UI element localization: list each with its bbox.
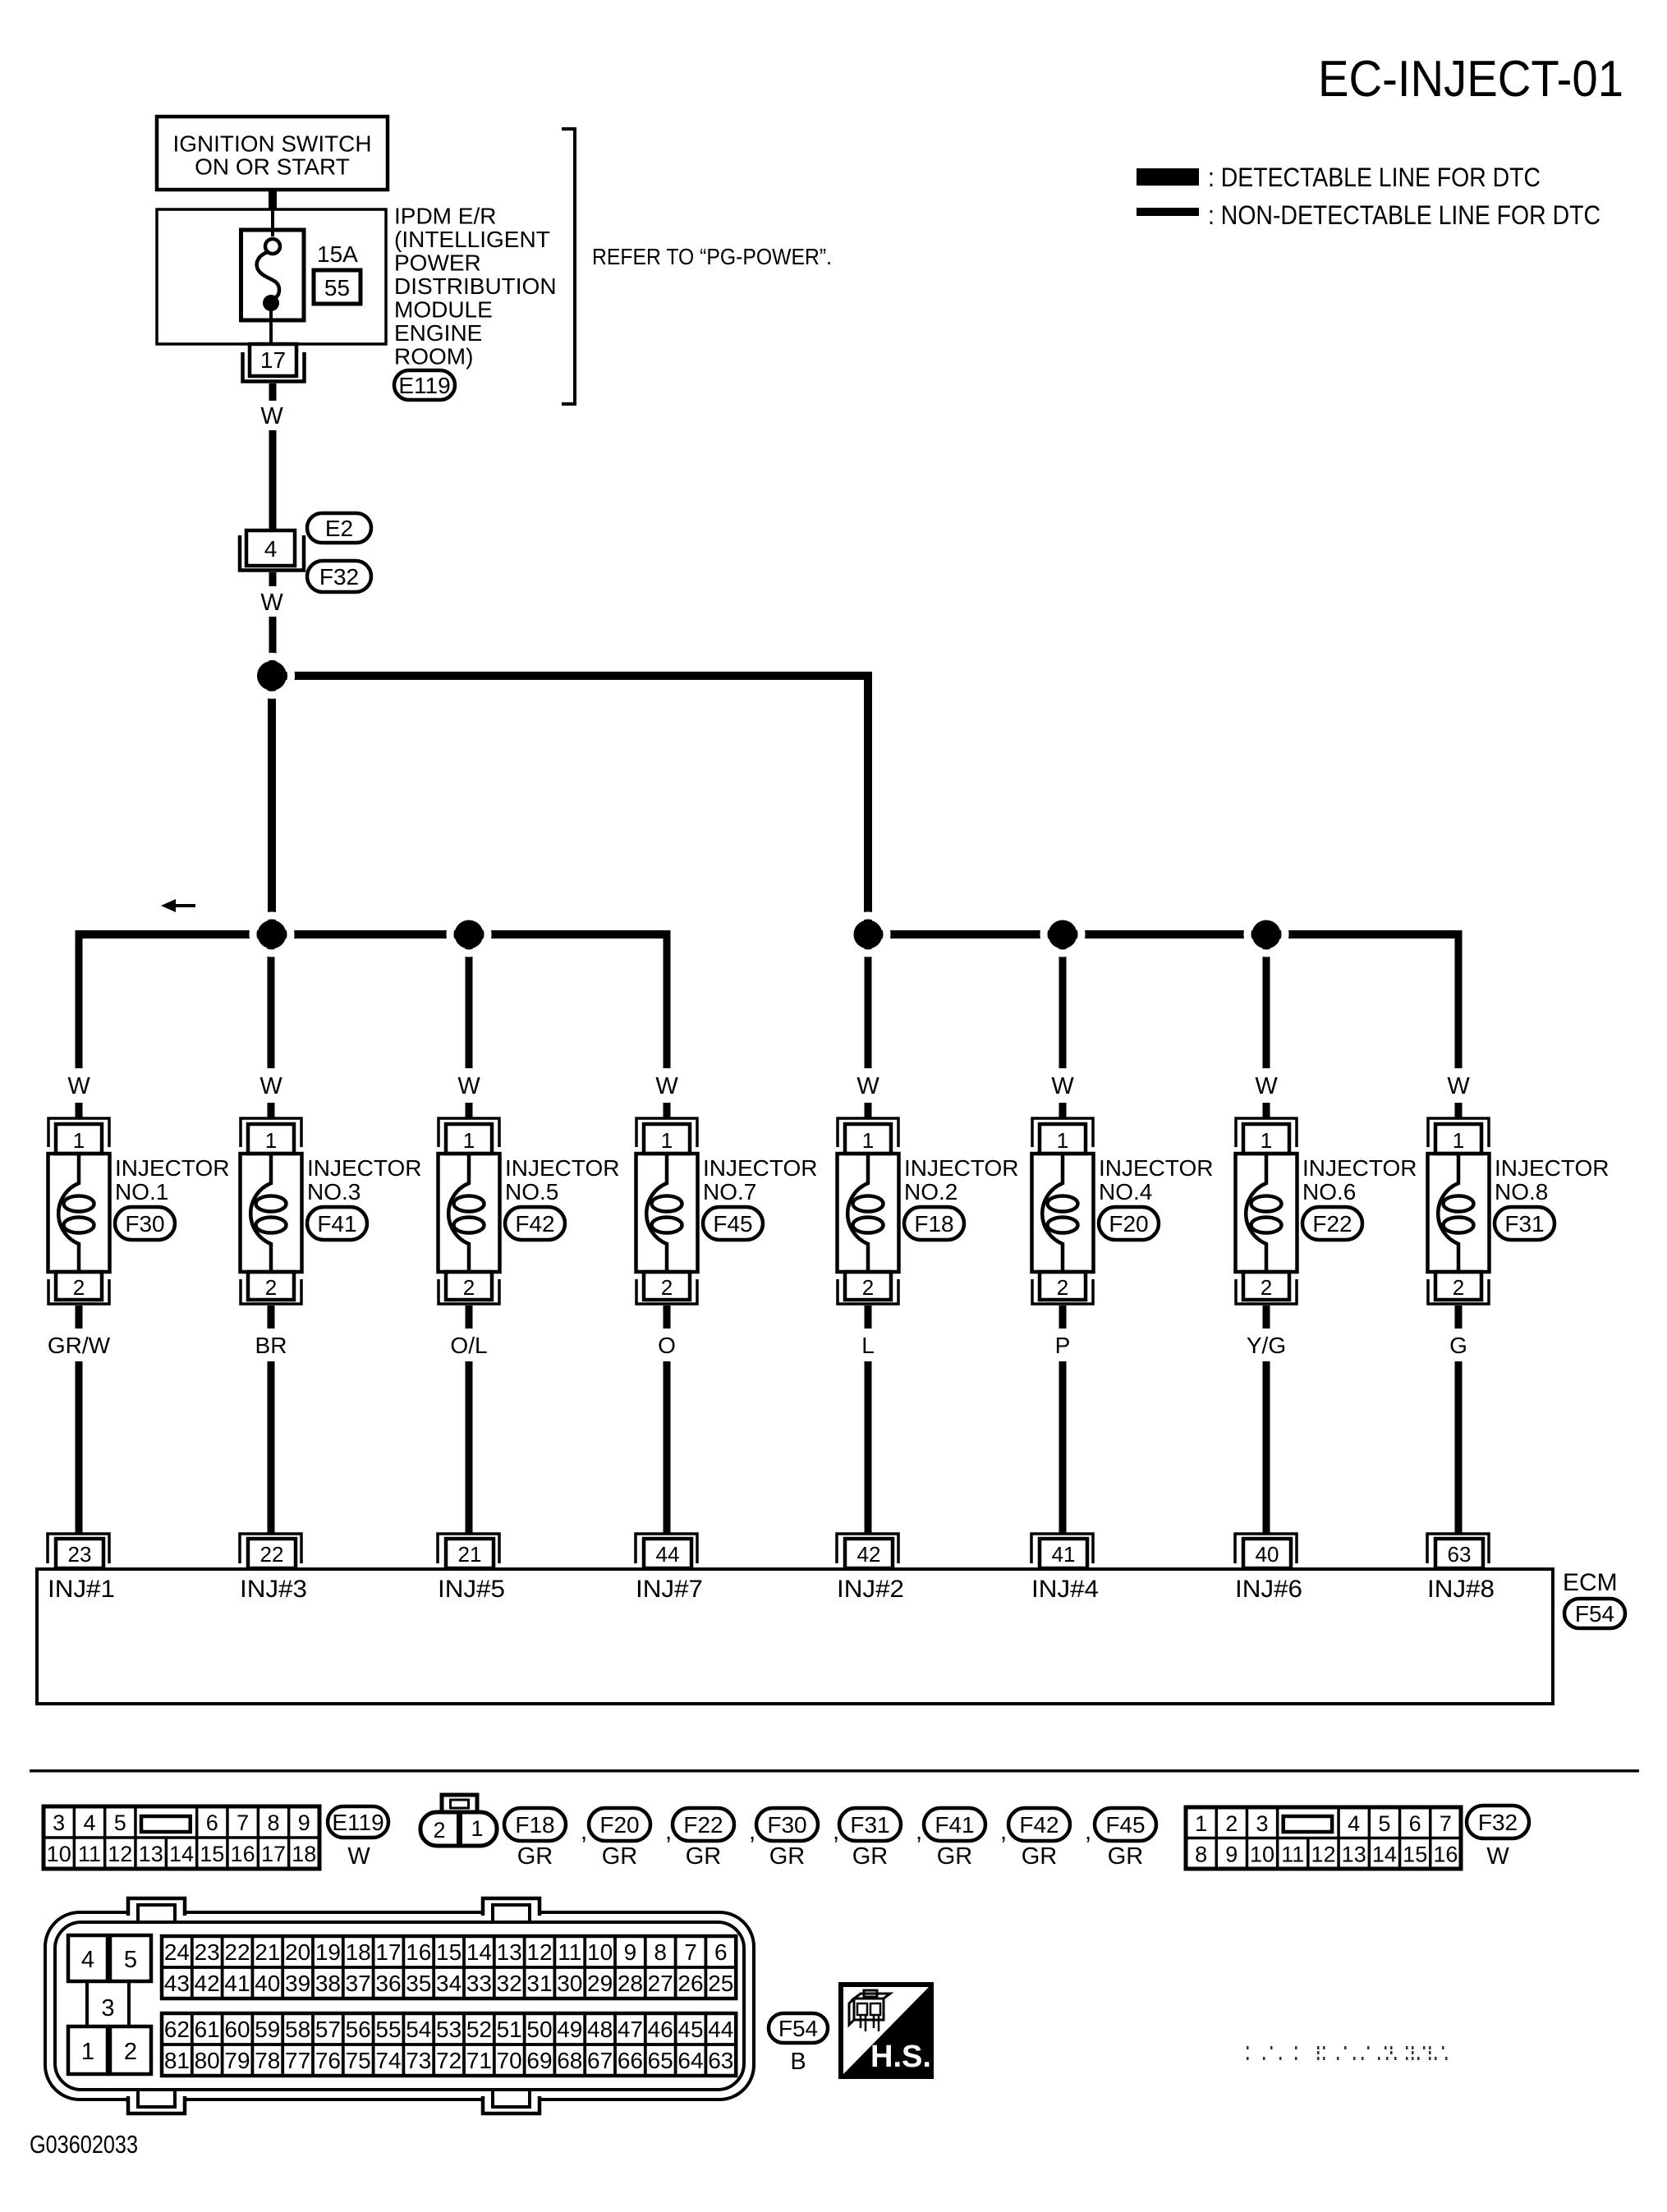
svg-text:1: 1 [463,1128,475,1153]
svg-text:INJECTOR: INJECTOR [307,1155,422,1181]
svg-text:59: 59 [255,2017,280,2042]
svg-text:33: 33 [466,1971,492,1996]
svg-text:B: B [790,2049,806,2075]
injector NO.5 connector shell top [439,1118,499,1147]
injector NO.2 pin 1 [845,1124,891,1154]
H.S. logo [841,1985,931,2077]
svg-text:(INTELLIGENT: (INTELLIGENT [394,227,550,252]
svg-text:73: 73 [406,2048,431,2073]
svg-text:REFER TO “PG-POWER”.: REFER TO “PG-POWER”. [592,244,832,269]
svg-text:NO.6: NO.6 [1302,1179,1356,1205]
svg-text:41: 41 [224,1971,250,1996]
svg-text:NO.5: NO.5 [505,1179,558,1205]
svg-text:W: W [260,590,283,616]
svg-text:36: 36 [375,1971,401,1996]
injector NO.1 coil body [48,1154,110,1272]
svg-text:22: 22 [224,1939,250,1965]
svg-text:42: 42 [195,1971,220,1996]
connector terminal 4 (E2/F32) [240,530,304,571]
wire injector to color label (Y/G) [1263,1306,1270,1329]
svg-text:W: W [1486,1843,1509,1870]
svg-text:78: 78 [255,2048,280,2073]
svg-text:1: 1 [265,1128,277,1153]
svg-text:,: , [1085,1818,1091,1845]
svg-text:48: 48 [587,2017,613,2042]
svg-text:1: 1 [471,1816,483,1841]
svg-text:74: 74 [375,2048,401,2073]
ECM connector pin grid upper [162,1936,736,1999]
wire W to injector (col NO.7) [664,1103,671,1119]
injector NO.4 pin 2 [1040,1272,1086,1300]
connector F41 oval [307,1207,367,1240]
svg-text:F20: F20 [599,1812,639,1838]
wire G to ECM pin 63 [1455,1361,1463,1535]
svg-text:,: , [1000,1818,1007,1845]
svg-text:39: 39 [285,1971,310,1996]
svg-text:DISTRIBUTION: DISTRIBUTION [394,273,557,299]
svg-text:16: 16 [1433,1843,1458,1867]
svg-text:4: 4 [1348,1811,1360,1836]
injector NO.2 connector shell top [838,1118,898,1147]
svg-text:1: 1 [661,1128,673,1153]
svg-text:58: 58 [285,2017,310,2042]
svg-text:19: 19 [315,1939,341,1965]
connector F20 oval [1099,1207,1159,1240]
injector NO.1 pin 2 [56,1272,102,1300]
svg-text:F30: F30 [767,1812,806,1838]
svg-text:5: 5 [114,1810,126,1835]
svg-text:55: 55 [375,2017,401,2042]
svg-text:81: 81 [164,2048,190,2073]
svg-text:F54: F54 [778,2016,818,2041]
connector terminal 17 [243,344,305,382]
svg-text:54: 54 [406,2017,431,2042]
injector NO.6 coil body [1236,1154,1297,1272]
svg-text:F42: F42 [515,1211,554,1237]
svg-text:14: 14 [169,1842,194,1866]
svg-text:8: 8 [654,1939,667,1965]
svg-text:24: 24 [164,1939,190,1965]
wire injector to color label (O) [664,1306,671,1329]
svg-text:38: 38 [315,1971,341,1996]
svg-text:1: 1 [862,1128,874,1153]
svg-text:5: 5 [124,1947,137,1973]
svg-text:F18: F18 [914,1211,953,1237]
wire O/L to ECM pin 21 [466,1361,473,1535]
svg-text:F42: F42 [1019,1812,1059,1838]
svg-text:: NON-DETECTABLE LINE FOR DTC: : NON-DETECTABLE LINE FOR DTC [1208,200,1600,230]
svg-text:F30: F30 [125,1211,164,1237]
injector NO.4 coil body [1032,1154,1094,1272]
svg-text:8: 8 [1195,1843,1207,1867]
ECM terminal 23 [48,1534,109,1568]
svg-text:15A: 15A [317,241,358,267]
svg-text:MODULE: MODULE [394,297,493,323]
svg-text:18: 18 [292,1842,316,1866]
svg-text:7: 7 [237,1810,249,1835]
injector NO.3 pin 2 [248,1272,294,1300]
svg-text:1: 1 [1195,1811,1207,1836]
injector NO.3 coil body [241,1154,302,1272]
connector F41 oval label [924,1808,985,1841]
wire left bus segment [76,930,671,938]
svg-text:34: 34 [436,1971,462,1996]
injector NO.8 pin 1 [1435,1124,1481,1154]
connector F30 oval label [756,1808,818,1841]
svg-text:,: , [916,1818,922,1845]
injector NO.1 connector shell top [48,1118,109,1147]
svg-text:W: W [260,403,283,429]
wire right drop to bus [864,672,872,934]
svg-text:NO.7: NO.7 [703,1179,756,1205]
svg-text:1: 1 [1057,1128,1068,1153]
ECM terminal 44 [636,1534,697,1568]
connector F22 oval label [673,1808,734,1841]
wire injector to color label (P) [1059,1306,1067,1329]
injector NO.7 connector shell top [636,1118,697,1147]
svg-text:G: G [1449,1333,1467,1358]
svg-text:4: 4 [83,1810,95,1835]
injector NO.6 pin 1 [1243,1124,1289,1154]
connector F45 oval [703,1207,763,1240]
svg-text:W: W [457,1073,480,1099]
svg-text:W: W [259,1073,282,1099]
wire O to ECM pin 44 [664,1361,671,1535]
svg-text:F22: F22 [683,1812,723,1838]
injector NO.8 connector shell bottom [1428,1279,1489,1304]
connector E119 oval label [328,1806,388,1838]
svg-text:2: 2 [1261,1275,1272,1300]
svg-text:2: 2 [1057,1275,1068,1300]
svg-text:P: P [1055,1333,1071,1358]
svg-text:2: 2 [265,1275,277,1300]
wire bus to W label (col NO.3) [268,934,275,1068]
svg-text:17: 17 [260,347,286,373]
svg-text:W: W [1447,1073,1470,1099]
injector NO.1 connector shell bottom [48,1279,109,1304]
svg-text:INJ#6: INJ#6 [1235,1576,1302,1603]
connector E119 pin grid [44,1806,319,1869]
wire ignition to IPDM [269,190,277,209]
wire bus to W label (col NO.8) [1455,934,1463,1068]
svg-text:GR: GR [937,1843,973,1870]
svg-text:EC-INJECT-01: EC-INJECT-01 [1318,51,1623,108]
svg-text:NO.1: NO.1 [115,1179,168,1205]
svg-text:6: 6 [1409,1811,1421,1836]
svg-text:E2: E2 [325,516,353,541]
svg-text:F45: F45 [1105,1812,1145,1838]
wire Y/G to ECM pin 40 [1263,1361,1270,1535]
svg-text:INJ#4: INJ#4 [1031,1576,1099,1603]
svg-text:1: 1 [81,2039,94,2065]
svg-text:9: 9 [1225,1843,1238,1867]
svg-text:15: 15 [200,1842,224,1866]
svg-text:2: 2 [463,1275,475,1300]
svg-text:35: 35 [406,1971,431,1996]
node bus junction col2 [253,916,291,953]
svg-text:7: 7 [684,1939,697,1965]
wire W to injector (col NO.5) [466,1103,473,1119]
svg-text:80: 80 [195,2048,220,2073]
svg-text:10: 10 [47,1842,71,1866]
svg-text:GR: GR [1022,1843,1058,1870]
svg-text:POWER: POWER [394,250,481,276]
svg-text:NO.4: NO.4 [1099,1179,1152,1205]
wire bus to W label (col NO.6) [1263,934,1270,1068]
injector NO.5 pin 1 [446,1124,492,1154]
connector E2 oval [307,513,371,543]
svg-text:14: 14 [466,1939,492,1965]
svg-text:GR: GR [852,1843,889,1870]
svg-text:26: 26 [677,1971,703,1996]
ECM terminal 41 [1031,1534,1093,1568]
svg-text:14: 14 [1372,1843,1397,1867]
svg-text:3: 3 [1256,1811,1268,1836]
injector NO.2 pin 2 [845,1272,891,1300]
ECM connector F54 housing [45,1898,754,2113]
svg-text:,: , [581,1818,587,1845]
svg-text:52: 52 [466,2017,492,2042]
wire W to injector (col NO.1) [76,1103,83,1119]
svg-text:12: 12 [108,1842,132,1866]
injector NO.4 connector shell bottom [1032,1279,1093,1304]
connector F18 oval label [504,1808,566,1841]
svg-text:51: 51 [497,2017,522,2042]
svg-text:W: W [655,1073,678,1099]
svg-text:41: 41 [1052,1542,1076,1567]
wire main vertical to bus [268,676,276,934]
svg-text:66: 66 [618,2048,643,2073]
injector NO.4 pin 1 [1040,1124,1086,1154]
svg-text:F45: F45 [713,1211,752,1237]
svg-text:F31: F31 [1504,1211,1544,1237]
svg-text:50: 50 [526,2017,552,2042]
connector F45 oval label [1095,1808,1156,1841]
svg-text:O/L: O/L [450,1333,487,1358]
wire bus to W label (col NO.5) [466,934,473,1068]
wire right bus segment [864,930,1463,938]
svg-text:10: 10 [1250,1843,1274,1867]
svg-text:INJ#8: INJ#8 [1427,1576,1495,1603]
fuse symbol [265,239,280,254]
svg-text:INJECTOR: INJECTOR [1302,1155,1417,1181]
wire W to injector (col NO.8) [1455,1103,1463,1119]
fuse box 15A [241,230,305,320]
ECM terminal 22 [240,1534,301,1568]
wire bus to W label (col NO.2) [865,934,872,1068]
svg-text:NO.8: NO.8 [1495,1179,1548,1205]
svg-text:1: 1 [73,1128,85,1153]
legend non-detectable line sample [1137,208,1199,216]
svg-text:GR: GR [686,1843,722,1870]
svg-text:W: W [347,1843,370,1870]
svg-text:INJECTOR: INJECTOR [1495,1155,1610,1181]
svg-text:16: 16 [231,1842,255,1866]
svg-text:60: 60 [224,2017,250,2042]
svg-text:E119: E119 [398,373,450,398]
svg-text:F41: F41 [935,1812,974,1838]
connector F18 oval [904,1207,964,1240]
svg-text:23: 23 [68,1542,92,1567]
svg-text:57: 57 [315,2017,341,2042]
svg-text:IPDM E/R: IPDM E/R [394,204,496,229]
legend detectable line sample [1137,168,1199,186]
svg-text:25: 25 [708,1971,733,1996]
svg-text:: DETECTABLE LINE FOR DTC: : DETECTABLE LINE FOR DTC [1208,163,1541,192]
svg-text:9: 9 [298,1810,310,1835]
svg-text:F22: F22 [1312,1211,1352,1237]
injector NO.7 connector shell bottom [636,1279,697,1304]
node bus junction col7 [1247,916,1285,953]
wire BR to ECM pin 22 [268,1361,275,1535]
connector F54 oval label [769,2013,828,2043]
injector NO.6 pin 2 [1243,1272,1289,1300]
injector NO.2 connector shell bottom [838,1279,898,1304]
svg-text:43: 43 [164,1971,190,1996]
svg-text:W: W [1051,1073,1074,1099]
svg-text:5: 5 [1378,1811,1390,1836]
wire W to injector (col NO.6) [1263,1103,1270,1119]
svg-text:2: 2 [661,1275,673,1300]
fuse number box 55 [314,270,360,304]
svg-text:F31: F31 [850,1812,889,1838]
svg-text:61: 61 [195,2017,220,2042]
svg-text:INJ#2: INJ#2 [837,1576,904,1603]
injector NO.7 coil body [636,1154,698,1272]
connector E119 (IPDM) [394,370,455,400]
wire injector to color label (BR) [268,1306,275,1329]
svg-text:F32: F32 [319,564,359,590]
svg-text:INJ#7: INJ#7 [636,1576,703,1603]
injector NO.5 coil body [439,1154,500,1272]
svg-text:W: W [856,1073,879,1099]
svg-text:INJECTOR: INJECTOR [115,1155,230,1181]
ECM connector pin grid lower [162,2013,736,2076]
svg-text:F32: F32 [1478,1810,1518,1835]
svg-text:,: , [665,1818,672,1845]
node bus junction col6 [1044,916,1081,953]
svg-text:67: 67 [587,2048,613,2073]
bracket refer to PG-POWER [562,129,575,404]
svg-text:30: 30 [557,1971,582,1996]
connector F32 pin grid [1186,1807,1461,1869]
svg-text:65: 65 [648,2048,673,2073]
svg-text:4: 4 [81,1947,94,1973]
svg-text:75: 75 [346,2048,371,2073]
svg-text:44: 44 [708,2017,733,2042]
ECM terminal 42 [837,1534,898,1568]
svg-text:9: 9 [624,1939,637,1965]
svg-text:GR: GR [769,1843,806,1870]
injector NO.7 pin 2 [644,1272,690,1300]
svg-text:NO.3: NO.3 [307,1179,360,1205]
svg-text:21: 21 [255,1939,280,1965]
svg-text:18: 18 [346,1939,371,1965]
svg-text:W: W [67,1073,90,1099]
svg-text:46: 46 [648,2017,673,2042]
connector F54 oval (ECM) [1564,1599,1625,1628]
ECM terminal 40 [1235,1534,1297,1568]
ECM box [37,1569,1553,1704]
svg-text:27: 27 [648,1971,673,1996]
svg-text:63: 63 [708,2048,733,2073]
svg-text:32: 32 [497,1971,522,1996]
injector NO.2 coil body [838,1154,899,1272]
node bus junction col5 [849,916,887,953]
svg-text:13: 13 [497,1939,522,1965]
svg-text:17: 17 [375,1939,401,1965]
svg-text:8: 8 [267,1810,279,1835]
connector F31 oval label [839,1808,901,1841]
svg-text:15: 15 [1403,1843,1427,1867]
svg-text:INJECTOR: INJECTOR [505,1155,620,1181]
svg-text:2: 2 [1225,1811,1238,1836]
wire bus to W label (col NO.4) [1059,934,1067,1068]
wire L to ECM pin 42 [865,1361,872,1535]
svg-text:12: 12 [526,1939,552,1965]
ECM connector pins 4,5,3,1,2 [68,1935,151,2074]
injector NO.4 connector shell top [1032,1118,1093,1147]
svg-text:E119: E119 [332,1810,383,1835]
svg-text:1: 1 [1261,1128,1272,1153]
svg-text:11: 11 [558,1939,581,1965]
wire P to ECM pin 41 [1059,1361,1067,1535]
wire into fuse [271,209,274,236]
injector NO.6 connector shell bottom [1236,1279,1297,1304]
svg-text:53: 53 [436,2017,462,2042]
wire top horizontal bus [272,672,872,680]
injector NO.3 connector shell top [241,1118,301,1147]
svg-text:2: 2 [1453,1275,1464,1300]
svg-text:1: 1 [1453,1128,1464,1153]
svg-text:W: W [1255,1073,1278,1099]
svg-text:47: 47 [618,2017,643,2042]
svg-text:6: 6 [714,1939,728,1965]
svg-text:15: 15 [436,1939,462,1965]
svg-text:56: 56 [346,2017,371,2042]
svg-text:44: 44 [656,1542,680,1567]
svg-text:3: 3 [53,1810,65,1835]
connector F42 oval label [1008,1808,1070,1841]
wire W to main junction [269,617,277,676]
connector F32 oval label [1467,1806,1529,1838]
wire bus to W label (col NO.1) [76,934,83,1068]
svg-text:7: 7 [1440,1811,1452,1836]
svg-text:45: 45 [677,2017,703,2042]
connector F31 oval [1495,1207,1554,1240]
wire injector to color label (L) [865,1306,872,1329]
connector F20 oval label [589,1808,650,1841]
svg-text:F41: F41 [317,1211,356,1237]
svg-text:64: 64 [677,2048,703,2073]
svg-text:79: 79 [224,2048,250,2073]
svg-text:40: 40 [1256,1542,1279,1567]
faint dots [1247,2046,1448,2060]
arrow left [174,904,195,907]
svg-text:NO.2: NO.2 [904,1179,957,1205]
svg-text:49: 49 [557,2017,582,2042]
svg-text:40: 40 [255,1971,280,1996]
svg-text:68: 68 [557,2048,582,2073]
svg-text:H.S.: H.S. [870,2040,931,2074]
svg-text:6: 6 [206,1810,218,1835]
injector NO.6 connector shell top [1236,1118,1297,1147]
svg-text:11: 11 [1281,1843,1304,1867]
svg-text:Y/G: Y/G [1247,1333,1286,1358]
svg-text:17: 17 [261,1842,286,1866]
svg-text:37: 37 [346,1971,371,1996]
wire W to injector (col NO.3) [268,1103,275,1119]
